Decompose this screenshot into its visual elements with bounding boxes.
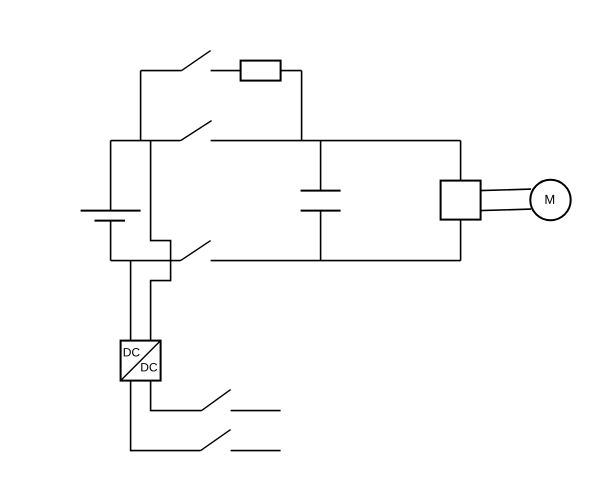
wire negative bus left segment [111,260,181,262]
wire precharge branch right vertical [301,71,303,141]
battery B1 positive plate [81,210,141,212]
wire precharge branch top horizontal [141,70,182,72]
converter U2 diagonal [121,341,161,381]
converter U2 DC-DC box [121,341,161,381]
switch S5 lower LV blade [201,430,231,451]
wire resistor to corner [281,70,302,72]
switch S1 precharge contactor blade [182,51,211,71]
wire capacitor top lead [320,141,322,191]
capacitor C1 top plate [301,190,341,192]
wire positive bus right segment [211,140,461,142]
battery B1 negative plate [95,220,126,222]
wire battery negative rail [110,221,112,261]
wire DC-DC lower output [131,381,201,451]
wire positive feed to DC-DC with jog [151,141,171,341]
wire S5 fixed contact [231,450,281,452]
wire battery positive rail [110,141,112,211]
inverter U1 box [441,181,481,220]
switch S3 negative contactor blade [181,241,211,261]
wire precharge branch left vertical [140,71,142,141]
switch S4 upper LV blade [202,390,231,411]
wire capacitor bottom lead [320,211,322,261]
motor M1 label [545,195,554,204]
wire inverter bottom lead [460,220,462,261]
converter U2 label DC output [141,363,157,372]
wire motor phase upper [481,189,531,191]
wire S4 fixed contact [231,410,281,412]
wire inverter top lead [460,141,462,181]
wire positive bus left segment [111,140,181,142]
wire motor phase lower [481,209,531,211]
switch S2 main contactor blade [181,121,212,141]
wire S1 to resistor [211,70,241,72]
wire DC-DC upper output [151,381,202,411]
capacitor C1 bottom plate [301,210,341,212]
converter U2 label DC input [124,348,140,357]
motor M1 circle [530,180,570,220]
resistor R1 precharge [241,61,281,81]
wire negative bus right segment [211,260,461,262]
wire negative feed to DC-DC [130,261,132,341]
